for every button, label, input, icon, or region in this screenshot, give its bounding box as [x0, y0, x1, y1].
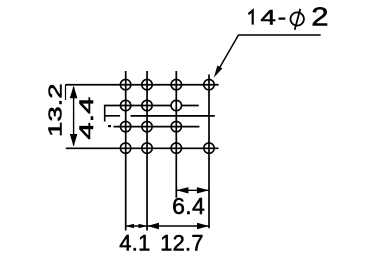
phi symbol stroke	[295, 9, 301, 30]
svg-text:2: 2	[311, 3, 328, 32]
dimension 6.4 left arrow	[176, 187, 188, 193]
hole row1 col2	[142, 79, 152, 89]
dimension 13.2 line	[73, 87, 75, 146]
wire row1 horizontal line	[66, 84, 219, 86]
wire column2 vertical	[146, 71, 148, 231]
dimension 13.2 down arrow	[70, 134, 78, 147]
wire center chain line left segment	[104, 115, 120, 117]
hole row3 col1	[120, 121, 130, 131]
phi symbol circle	[291, 12, 304, 25]
callout digit 1	[248, 11, 252, 25]
hole row1 col4	[204, 79, 214, 89]
svg-text:12.7: 12.7	[160, 231, 204, 256]
leader arrowhead	[214, 66, 223, 78]
dimension 12.7 left arrow	[147, 223, 159, 229]
dimension 6.4 right arrow	[197, 187, 209, 193]
hole row2 col2	[142, 100, 152, 110]
hole row4 col1	[120, 143, 130, 153]
wire row2 horizontal line left part	[104, 105, 170, 107]
dimension 4.1 left arrow	[126, 224, 135, 229]
wire center chain line long segment	[131, 115, 215, 117]
svg-text:6.4: 6.4	[172, 193, 205, 219]
svg-text:-: -	[278, 6, 286, 30]
svg-text:4: 4	[261, 7, 276, 30]
hole row2 col3	[171, 100, 181, 110]
leader diagonal	[216, 35, 238, 73]
wire row3 dash dot	[108, 125, 111, 127]
dimension 4.1 right arrow	[139, 224, 148, 229]
dimension 13.2 up arrow	[70, 86, 78, 99]
wire column1 vertical	[125, 71, 127, 231]
wire column3 vertical	[175, 71, 177, 198]
hole row1 col1	[120, 79, 130, 89]
dimension 12.7 right arrow	[197, 223, 209, 229]
svg-text:4.4: 4.4	[77, 97, 98, 140]
hole row3 col3	[171, 121, 181, 131]
hole row4 col3	[171, 143, 181, 153]
svg-text:4.1: 4.1	[119, 231, 150, 256]
hole row4 col2	[142, 143, 152, 153]
leader underline	[238, 34, 320, 36]
svg-text:13.2: 13.2	[45, 83, 65, 137]
wire column4 vertical	[208, 75, 210, 229]
dimension 12.7 line	[147, 225, 209, 227]
wire row4 horizontal line	[66, 147, 219, 149]
dimension 6.4 line	[176, 189, 209, 191]
hole row1 col3	[171, 79, 181, 89]
hole row4 col4	[204, 143, 214, 153]
hole row3 col2	[142, 121, 152, 131]
wire row1 left stub	[65, 85, 67, 100]
dimension 4.1 line	[126, 225, 147, 227]
wire row3 horizontal line	[114, 126, 200, 128]
wire row2 horizontal line right part	[182, 105, 199, 107]
hole row2 col1	[120, 100, 130, 110]
orientation mark vertical	[104, 105, 106, 122]
